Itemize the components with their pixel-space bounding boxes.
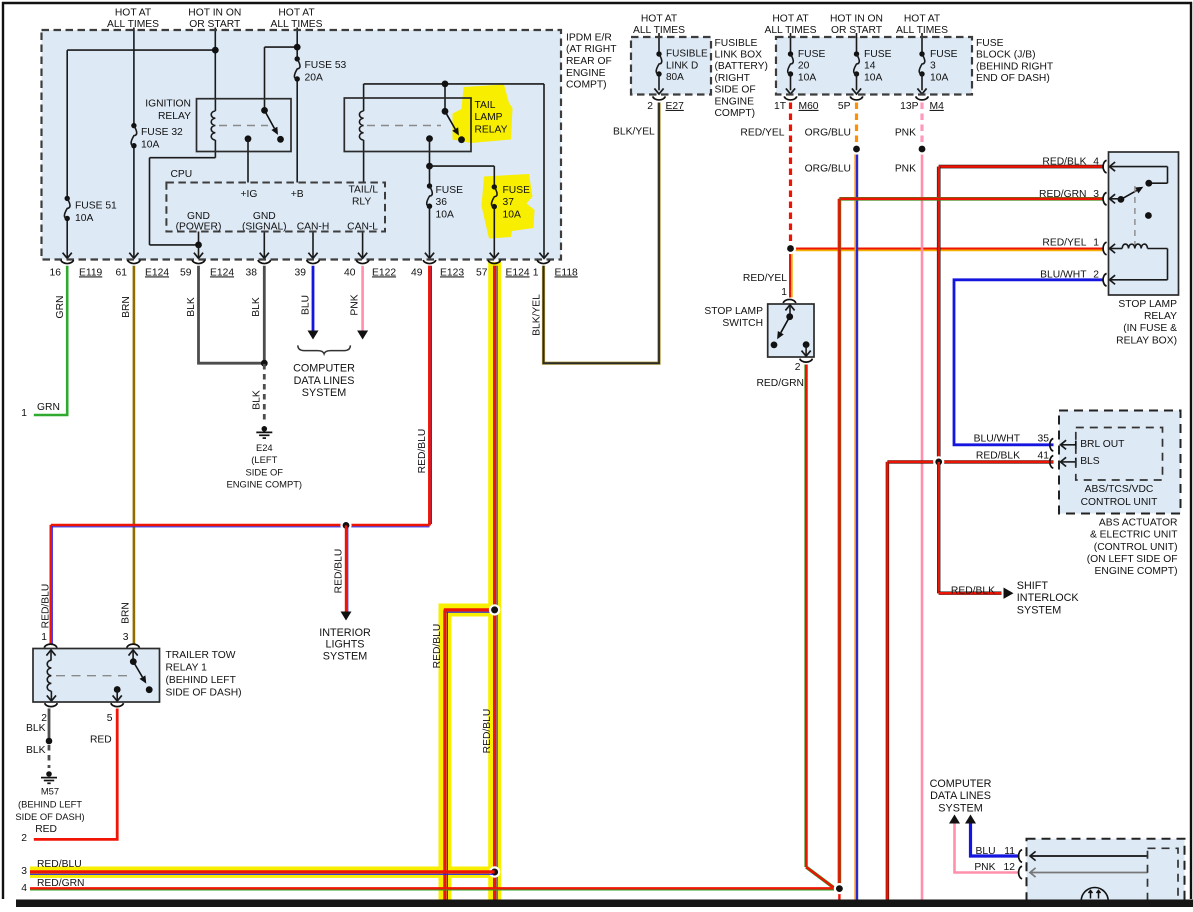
svg-text:10A: 10A (930, 72, 948, 83)
meter symbol circle (1081, 888, 1108, 912)
fusible link box border (631, 37, 711, 95)
wire RED/BLK down to off-page (886, 462, 889, 900)
svg-text:RED/YEL: RED/YEL (740, 128, 784, 139)
tail lamp relay coil (359, 111, 363, 140)
wire HOT AT ALL TIMES 1 into fuse 32 (133, 28, 135, 126)
svg-text:RED/BLK: RED/BLK (951, 586, 995, 597)
ignition relay box (197, 99, 292, 152)
svg-text:(BATTERY): (BATTERY) (715, 61, 768, 72)
svg-text:RED/BLK: RED/BLK (1042, 156, 1086, 167)
wire RED/BLU second vertical highlighted (443, 610, 446, 900)
fuse 20 (790, 33, 792, 54)
trailer tow relay switch (130, 658, 137, 665)
svg-text:20A: 20A (305, 72, 323, 83)
stop lamp switch box fill (768, 304, 814, 357)
svg-text:FUSE 32: FUSE 32 (141, 127, 183, 138)
branch to fuse 51 (67, 49, 215, 51)
svg-text:SHIFT: SHIFT (1017, 580, 1049, 592)
svg-text:FUSE: FUSE (976, 38, 1004, 49)
svg-text:+B: +B (291, 189, 304, 200)
stop lamp relay pin 3 stub (1110, 198, 1121, 200)
svg-text:RED: RED (35, 824, 57, 835)
svg-text:ALL TIMES: ALL TIMES (764, 25, 816, 36)
wire RED row 2 from trailer pin 5 (34, 709, 117, 840)
wire PNK to computer data lines (955, 824, 1020, 873)
svg-text:LIGHTS: LIGHTS (326, 639, 365, 651)
svg-text:RED/BLU: RED/BLU (37, 859, 82, 870)
svg-text:SIDE OF: SIDE OF (715, 85, 756, 96)
svg-text:16: 16 (50, 267, 62, 278)
svg-text:SIDE OF: SIDE OF (246, 466, 284, 477)
svg-text:REAR OF: REAR OF (566, 56, 612, 67)
highlight RED/BLU second vertical (439, 604, 452, 900)
svg-text:36: 36 (436, 197, 448, 208)
svg-text:57: 57 (476, 267, 488, 278)
stop lamp relay connector arcs (1103, 160, 1107, 173)
svg-text:12: 12 (1004, 862, 1016, 873)
wire BLK pin 38 (263, 266, 266, 363)
wire BLK trailer pin 2 (48, 709, 51, 742)
fuse box connector arcs (653, 96, 666, 100)
wire RED/BLU branch to interior lights (345, 525, 347, 611)
svg-text:E124: E124 (145, 267, 169, 278)
svg-text:ALL TIMES: ALL TIMES (896, 25, 948, 36)
svg-text:PNK: PNK (895, 164, 916, 175)
svg-text:11: 11 (1004, 846, 1015, 857)
svg-text:CPU: CPU (171, 169, 193, 180)
branch to ignition relay switch (265, 46, 298, 48)
svg-text:E24: E24 (256, 442, 273, 453)
svg-text:GRN: GRN (55, 296, 66, 319)
svg-text:BLK: BLK (251, 390, 262, 410)
svg-text:BRN: BRN (121, 296, 132, 318)
svg-text:(AT RIGHT: (AT RIGHT (566, 44, 617, 55)
svg-text:RED/BLU: RED/BLU (432, 624, 443, 669)
svg-text:STOP LAMP: STOP LAMP (704, 306, 763, 317)
wire RED/GRN relay pin 3 (839, 197, 1103, 201)
svg-text:3: 3 (21, 866, 27, 877)
page border left (2, 2, 4, 899)
svg-text:HOT AT: HOT AT (278, 8, 315, 19)
svg-text:CAN-L: CAN-L (347, 222, 378, 233)
svg-text:FUSE: FUSE (930, 49, 958, 60)
svg-text:DATA LINES: DATA LINES (930, 790, 991, 802)
svg-text:39: 39 (295, 267, 307, 278)
combination meter box fill (1027, 839, 1185, 907)
svg-text:35: 35 (1038, 433, 1050, 444)
wire BRN pin 61 (133, 266, 136, 645)
svg-text:IPDM E/R: IPDM E/R (566, 32, 612, 43)
ground M57 (46, 771, 52, 777)
svg-text:ALL TIMES: ALL TIMES (270, 19, 322, 30)
svg-text:PNK: PNK (974, 862, 995, 873)
svg-text:10A: 10A (141, 139, 159, 150)
svg-text:M4: M4 (930, 101, 945, 112)
svg-text:80A: 80A (666, 72, 684, 83)
svg-text:GND: GND (253, 211, 276, 222)
node RED/BLU junction upper (489, 604, 500, 615)
svg-text:SYSTEM: SYSTEM (323, 650, 367, 662)
svg-text:RED/BLU: RED/BLU (40, 584, 51, 629)
wire RED/GRN row 4 (30, 889, 839, 891)
svg-text:BLU/WHT: BLU/WHT (1040, 270, 1087, 281)
node interior lights branch (340, 520, 351, 531)
svg-text:40: 40 (344, 267, 356, 278)
svg-text:SYSTEM: SYSTEM (1017, 604, 1061, 616)
wire GND POWER to pin 59 (198, 232, 200, 245)
wire GRN row 1 (32, 414, 35, 417)
svg-text:RELAY: RELAY (475, 125, 508, 136)
svg-text:DATA LINES: DATA LINES (294, 375, 355, 387)
svg-text:10A: 10A (798, 72, 816, 83)
stop lamp switch box (768, 304, 814, 357)
ABS control unit box fill (1059, 411, 1181, 514)
svg-text:4: 4 (1093, 156, 1099, 167)
wire RED/BLU pin 57 highlighted (493, 266, 496, 900)
svg-text:ABS ACTUATOR: ABS ACTUATOR (1099, 517, 1178, 528)
trailer tow relay pin 3 arrow (132, 650, 134, 662)
svg-text:RED/YEL: RED/YEL (743, 273, 787, 284)
meter outer dashed box (1027, 839, 1185, 907)
wire BLU pin 39 (312, 266, 315, 332)
svg-text:1: 1 (1093, 238, 1099, 249)
svg-text:(BEHIND LEFT: (BEHIND LEFT (18, 798, 82, 809)
node PNK splice (916, 143, 927, 154)
wire RED/GRN from stop lamp switch pin 2 (804, 365, 807, 868)
CPU box dashed (166, 183, 385, 232)
svg-text:BLK: BLK (26, 723, 46, 734)
fusible link D (658, 33, 660, 54)
svg-text:SIDE OF DASH): SIDE OF DASH) (15, 811, 84, 822)
svg-text:BLU: BLU (300, 295, 311, 315)
svg-text:INTERIOR: INTERIOR (319, 627, 371, 639)
IPDM E/R box border (42, 30, 562, 260)
svg-text:1: 1 (533, 267, 539, 278)
wire RED/BLU left vertical to trailer pin 1 (50, 525, 52, 645)
ignition relay coil return to GND (150, 157, 216, 159)
node RED/YEL junction (785, 243, 796, 254)
svg-text:SYSTEM: SYSTEM (938, 802, 982, 814)
svg-text:RED/GRN: RED/GRN (37, 878, 84, 889)
svg-text:HOT AT: HOT AT (115, 8, 152, 19)
wire HOT IN ON OR START feed (214, 28, 216, 99)
ignition relay switch (261, 107, 268, 114)
stop lamp relay box (1109, 152, 1179, 295)
svg-text:3: 3 (1093, 189, 1099, 200)
svg-text:INTERLOCK: INTERLOCK (1017, 592, 1080, 604)
wire RED/YEL dashed from fuse 20 (789, 103, 792, 245)
svg-text:HOT AT: HOT AT (772, 13, 809, 24)
wire ORG/BLU dashed from fuse 14 (855, 103, 858, 146)
svg-text:RED: RED (90, 734, 112, 745)
svg-text:37: 37 (503, 197, 515, 208)
svg-text:10A: 10A (436, 210, 454, 221)
svg-text:OR START: OR START (831, 25, 883, 36)
svg-text:E123: E123 (440, 267, 464, 278)
trailer tow relay pin 5 arrow (116, 690, 118, 702)
svg-text:OR START: OR START (189, 19, 241, 30)
svg-text:49: 49 (411, 267, 423, 278)
svg-text:BRL OUT: BRL OUT (1080, 439, 1125, 450)
svg-text:2: 2 (647, 101, 653, 112)
IPDM pin connector arcs (61, 260, 74, 264)
svg-text:BLK/YEL: BLK/YEL (613, 127, 655, 138)
highlight RED/BLU row 3 (30, 867, 501, 878)
svg-text:1T: 1T (774, 101, 787, 112)
wire PNK dashed from fuse 3 (920, 103, 923, 146)
svg-text:13P: 13P (900, 101, 918, 112)
svg-text:GRN: GRN (37, 402, 60, 413)
ABS connector arcs (1050, 439, 1054, 452)
svg-text:BLU/WHT: BLU/WHT (974, 433, 1021, 444)
svg-text:RELAY BOX): RELAY BOX) (1116, 335, 1177, 346)
highlight tail lamp relay label (453, 85, 513, 144)
fusible link box fill (631, 37, 711, 95)
svg-text:M60: M60 (799, 101, 819, 112)
svg-text:(ON LEFT SIDE OF: (ON LEFT SIDE OF (1087, 554, 1178, 565)
svg-text:2: 2 (1093, 270, 1099, 281)
ABS pin 35 arrow (1061, 444, 1076, 446)
svg-text:(SIGNAL): (SIGNAL) (242, 222, 287, 233)
stop lamp relay pin 4 path (1110, 166, 1168, 168)
svg-text:2: 2 (21, 833, 27, 844)
stop lamp switch pin 1 arrow (789, 305, 791, 317)
svg-text:IGNITION: IGNITION (145, 99, 191, 110)
stop lamp relay coil (1110, 248, 1123, 250)
svg-text:ABS/TCS/VDC: ABS/TCS/VDC (1085, 484, 1154, 495)
wire BLU to computer data lines (971, 824, 1020, 857)
svg-text:HOT AT: HOT AT (904, 13, 941, 24)
svg-text:61: 61 (116, 267, 128, 278)
stop lamp switch connector arcs (783, 299, 796, 303)
wire PNK pin 40 (361, 266, 364, 332)
trailer tow relay box (33, 649, 160, 703)
svg-text:3: 3 (123, 632, 129, 643)
svg-text:3: 3 (930, 61, 936, 72)
svg-text:ENGINE: ENGINE (715, 96, 755, 107)
wire RED/BLU horizontal to trailer relay (51, 526, 430, 528)
wire HOT AT ALL TIMES 2 into fuse 53 (296, 28, 298, 59)
svg-text:RED/BLU: RED/BLU (417, 429, 428, 474)
svg-text:TRAILER TOW: TRAILER TOW (166, 650, 236, 661)
node ORG/BLU splice (851, 143, 862, 154)
svg-text:RELAY 1: RELAY 1 (166, 663, 208, 674)
svg-text:GND: GND (187, 211, 210, 222)
svg-text:E119: E119 (79, 267, 103, 278)
wire BLK dashed to ground E24 (263, 364, 266, 422)
svg-text:FUSE 51: FUSE 51 (75, 200, 117, 211)
svg-text:& ELECTRIC UNIT: & ELECTRIC UNIT (1090, 530, 1178, 541)
svg-text:COMPT): COMPT) (566, 80, 607, 91)
tail lamp relay internal dashed (367, 125, 441, 127)
svg-text:38: 38 (246, 267, 258, 278)
svg-text:5: 5 (107, 713, 113, 724)
svg-text:E118: E118 (555, 267, 579, 278)
page border top (2, 2, 1192, 4)
meter pin 11 arrow (1030, 855, 1148, 857)
page bottom bar (16, 900, 1193, 908)
svg-text:RED/BLU: RED/BLU (334, 549, 345, 594)
ABS inner control unit dashed box (1076, 428, 1163, 481)
wire BLK dashed to ground M57 (48, 745, 51, 768)
svg-text:FUSE: FUSE (798, 49, 826, 60)
ground E24 (262, 426, 268, 432)
wire BLK pin 59 (199, 266, 265, 363)
IPDM E/R box fill (42, 30, 562, 260)
svg-text:(POWER): (POWER) (176, 222, 222, 233)
page border right (1190, 2, 1192, 899)
svg-text:BRN: BRN (121, 602, 132, 624)
svg-text:E122: E122 (372, 267, 396, 278)
wire RED/BLU stub at junction (444, 608, 495, 611)
svg-text:ENGINE COMPT): ENGINE COMPT) (227, 478, 303, 489)
fuse 3 (921, 33, 923, 54)
meter inner dashed box (1148, 848, 1179, 907)
ABS pin 41 arrow (1061, 461, 1076, 463)
svg-text:RED/GRN: RED/GRN (757, 378, 804, 389)
trailer tow relay box fill (33, 649, 160, 703)
svg-text:BLK: BLK (251, 297, 262, 317)
svg-text:RELAY: RELAY (158, 111, 191, 122)
tail lamp relay box (344, 98, 471, 152)
svg-text:5P: 5P (838, 101, 851, 112)
tail lamp relay feed line (364, 83, 544, 85)
arrow shift interlock (1004, 588, 1014, 599)
wire GND SIGNAL to pin 38 (263, 232, 265, 258)
fuse 51 (65, 196, 70, 201)
svg-text:SWITCH: SWITCH (722, 318, 763, 329)
svg-text:(BEHIND RIGHT: (BEHIND RIGHT (976, 61, 1054, 72)
highlight RED/BLU stub (439, 604, 502, 617)
wire CAN-L to pin 40 (362, 232, 364, 258)
svg-text:(CONTROL UNIT): (CONTROL UNIT) (1094, 542, 1178, 553)
svg-text:SYSTEM: SYSTEM (302, 387, 346, 399)
stop lamp relay floating contact (1145, 212, 1152, 219)
wire GRN pin 16 (34, 266, 67, 415)
svg-text:FUSIBLE: FUSIBLE (666, 49, 708, 60)
wire CAN-H to pin 39 (312, 232, 314, 258)
ABS outer dashed box (1059, 411, 1181, 514)
node RED/GRN row 4 junction (834, 883, 845, 894)
svg-text:2: 2 (795, 362, 801, 373)
stop lamp switch contacts (786, 313, 793, 320)
fuse block J/B fill (776, 37, 972, 95)
stop lamp switch pin 2 arrow (805, 345, 807, 357)
svg-text:E124: E124 (506, 267, 530, 278)
stop lamp relay switch arm (1121, 190, 1137, 199)
svg-text:ENGINE: ENGINE (566, 68, 606, 79)
svg-text:41: 41 (1038, 451, 1050, 462)
wire BLK/YEL pin 1 to fusible link (544, 103, 660, 364)
svg-text:FUSE 53: FUSE 53 (305, 60, 347, 71)
trailer tow relay pin 1 arrow (50, 650, 52, 660)
wire RED/YEL horizontal to stop lamp relay pin 1 (791, 248, 1104, 251)
tail lamp relay switch (442, 108, 449, 115)
meter pin 12 arrow (1030, 872, 1148, 874)
svg-text:ALL TIMES: ALL TIMES (633, 25, 685, 36)
fuse 37 (492, 184, 497, 189)
svg-text:1: 1 (21, 408, 27, 419)
trailer tow relay coil (47, 660, 51, 691)
stop lamp relay dashed link (1134, 186, 1136, 245)
svg-text:BLOCK (J/B): BLOCK (J/B) (976, 50, 1036, 61)
svg-text:1: 1 (41, 632, 47, 643)
svg-text:HOT IN ON: HOT IN ON (830, 13, 883, 24)
node RED/BLU junction row3 (489, 866, 500, 877)
svg-text:SIDE OF DASH): SIDE OF DASH) (166, 687, 242, 698)
highlight fuse 37 label (482, 174, 535, 239)
svg-text:FUSE: FUSE (864, 49, 892, 60)
svg-text:59: 59 (180, 267, 192, 278)
svg-text:4: 4 (21, 883, 27, 894)
wire ORG/BLU solid (854, 149, 856, 900)
svg-text:CONTROL UNIT: CONTROL UNIT (1081, 497, 1159, 508)
trailer tow relay coil bottom arrow (50, 691, 52, 701)
node fuse 36/37 split (426, 163, 433, 170)
svg-text:FUSE: FUSE (436, 185, 464, 196)
svg-text:LINK BOX: LINK BOX (715, 50, 763, 61)
svg-text:STOP LAMP: STOP LAMP (1118, 299, 1177, 310)
svg-text:PNK: PNK (350, 294, 361, 315)
svg-text:RELAY: RELAY (1144, 311, 1177, 322)
svg-text:TAIL: TAIL (475, 100, 496, 111)
svg-text:BLS: BLS (1080, 456, 1100, 467)
fuse 14 (856, 33, 858, 54)
svg-text:1: 1 (781, 287, 787, 298)
node RED/BLK junction (933, 456, 944, 467)
node BLK join (261, 360, 268, 367)
wire RED/YEL to stop lamp switch (789, 249, 792, 298)
node fuse51 branch (212, 47, 219, 54)
svg-text:E124: E124 (210, 267, 234, 278)
fuse block J/B border (776, 37, 972, 95)
fuse 36 (427, 183, 432, 188)
wire RED/BLK relay pin 4 (939, 165, 1104, 169)
svg-text:14: 14 (864, 61, 876, 72)
svg-text:HOT IN ON: HOT IN ON (188, 8, 241, 19)
wire RED/BLU row 3 highlighted (30, 870, 495, 873)
svg-text:FUSIBLE: FUSIBLE (715, 38, 758, 49)
svg-text:ALL TIMES: ALL TIMES (107, 19, 159, 30)
svg-text:+IG: +IG (241, 189, 258, 200)
svg-text:RED/BLK: RED/BLK (976, 451, 1020, 462)
svg-text:FUSE: FUSE (503, 185, 531, 196)
svg-text:COMPUTER: COMPUTER (293, 362, 355, 374)
wire RED/BLK to shift interlock (937, 462, 940, 593)
svg-text:BLK/YEL: BLK/YEL (531, 294, 542, 336)
svg-text:RED/YEL: RED/YEL (1042, 238, 1086, 249)
svg-text:E27: E27 (666, 101, 685, 112)
svg-text:END OF DASH): END OF DASH) (976, 73, 1050, 84)
trailer tow relay connector arcs (44, 644, 57, 648)
svg-text:10A: 10A (75, 213, 93, 224)
node tail relay feed (442, 81, 449, 88)
ignition relay internal dashed (219, 125, 268, 127)
svg-text:CAN-H: CAN-H (297, 222, 330, 233)
fuse 32 (131, 123, 136, 128)
svg-text:20: 20 (798, 61, 810, 72)
svg-text:ORG/BLU: ORG/BLU (805, 128, 851, 139)
stop lamp relay box fill (1109, 152, 1179, 295)
svg-text:PNK: PNK (895, 128, 916, 139)
svg-text:(IN FUSE &: (IN FUSE & (1123, 323, 1177, 334)
svg-text:BLK: BLK (26, 745, 46, 756)
svg-text:(RIGHT: (RIGHT (715, 73, 751, 84)
pin chevrons at IPDM bottom edge (63, 253, 72, 259)
svg-text:HOT AT: HOT AT (641, 13, 678, 24)
svg-text:COMPT): COMPT) (715, 108, 756, 119)
highlight RED/BLU wire pin 57 vertical (488, 262, 501, 900)
